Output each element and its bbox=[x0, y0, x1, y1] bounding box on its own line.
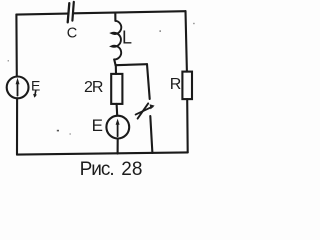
svg-text:C: C bbox=[67, 25, 77, 41]
svg-text:R: R bbox=[170, 76, 182, 93]
svg-text:Рис.: Рис. bbox=[80, 159, 114, 180]
svg-text:2R: 2R bbox=[84, 79, 103, 96]
svg-text:E: E bbox=[31, 77, 40, 93]
svg-text:E: E bbox=[92, 116, 103, 135]
svg-text:28: 28 bbox=[121, 159, 142, 180]
svg-text:L: L bbox=[122, 28, 132, 48]
